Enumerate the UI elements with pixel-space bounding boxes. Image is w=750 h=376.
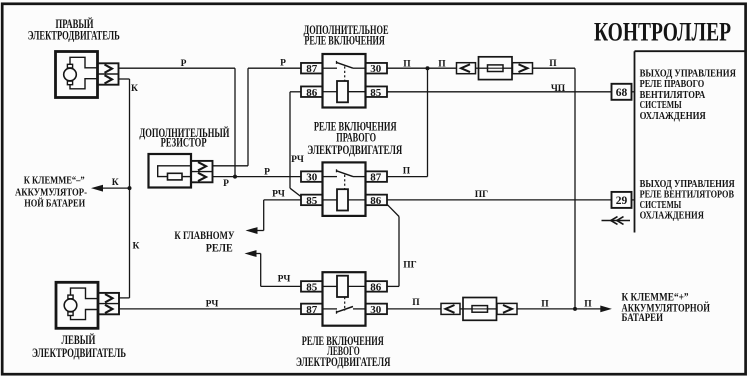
svg-text:КОНТРОЛЛЕР: КОНТРОЛЛЕР <box>594 17 731 46</box>
svg-text:РЧ: РЧ <box>291 155 304 165</box>
svg-text:85: 85 <box>306 195 318 207</box>
svg-text:ЭЛЕКТРОДВИГАТЕЛЯ: ЭЛЕКТРОДВИГАТЕЛЯ <box>307 143 402 157</box>
svg-text:РЕЗИСТОР: РЕЗИСТОР <box>161 135 207 149</box>
svg-text:П: П <box>412 298 420 308</box>
svg-text:РЧ: РЧ <box>278 274 291 284</box>
svg-text:П: П <box>584 299 592 309</box>
svg-text:ЧП: ЧП <box>551 84 566 94</box>
svg-text:29: 29 <box>616 195 628 207</box>
svg-text:87: 87 <box>306 63 318 75</box>
svg-text:Р: Р <box>280 59 286 69</box>
svg-text:Р: Р <box>181 59 187 69</box>
svg-text:85: 85 <box>370 87 382 99</box>
svg-text:68: 68 <box>616 87 628 99</box>
svg-text:П: П <box>403 167 411 177</box>
svg-text:К: К <box>131 84 138 94</box>
svg-text:РЧ: РЧ <box>206 299 219 309</box>
svg-text:П: П <box>549 59 557 69</box>
svg-text:87: 87 <box>370 172 382 184</box>
svg-text:ПГ: ПГ <box>403 261 416 271</box>
svg-text:30: 30 <box>306 172 318 184</box>
svg-text:ЛЕВЫЙ: ЛЕВЫЙ <box>61 333 95 347</box>
svg-text:БАТАРЕИ: БАТАРЕИ <box>622 312 664 324</box>
svg-text:К ГЛАВНОМУ: К ГЛАВНОМУ <box>174 230 234 242</box>
svg-text:ПГ: ПГ <box>475 190 488 200</box>
svg-text:Р: Р <box>223 179 229 189</box>
svg-text:РЕЛЕ: РЕЛЕ <box>206 242 233 254</box>
svg-text:30: 30 <box>370 304 382 316</box>
svg-text:РЧ: РЧ <box>272 190 285 200</box>
svg-text:30: 30 <box>370 63 382 75</box>
svg-text:86: 86 <box>370 195 382 207</box>
svg-text:К КЛЕММЕ“–”: К КЛЕММЕ“–” <box>24 175 85 187</box>
svg-text:П: П <box>541 299 549 309</box>
svg-text:П: П <box>403 60 411 70</box>
svg-text:К: К <box>112 178 119 188</box>
svg-text:86: 86 <box>370 281 382 293</box>
svg-text:ЭЛЕКТРОДВИГАТЕЛЬ: ЭЛЕКТРОДВИГАТЕЛЬ <box>28 28 120 42</box>
svg-text:ОХЛАЖДЕНИЯ: ОХЛАЖДЕНИЯ <box>640 110 706 122</box>
svg-text:НОЙ БАТАРЕИ: НОЙ БАТАРЕИ <box>24 197 85 209</box>
svg-text:П: П <box>438 60 446 70</box>
svg-text:ЭЛЕКТРОДВИГАТЕЛЯ: ЭЛЕКТРОДВИГАТЕЛЯ <box>296 355 390 369</box>
svg-text:К: К <box>133 242 140 252</box>
svg-text:ЭЛЕКТРОДВИГАТЕЛЬ: ЭЛЕКТРОДВИГАТЕЛЬ <box>32 346 126 360</box>
svg-text:85: 85 <box>306 281 318 293</box>
svg-text:87: 87 <box>306 304 318 316</box>
svg-text:ОХЛАЖДЕНИЯ: ОХЛАЖДЕНИЯ <box>640 209 704 221</box>
svg-text:86: 86 <box>306 87 318 99</box>
svg-text:РЕЛЕ ВКЛЮЧЕНИЯ: РЕЛЕ ВКЛЮЧЕНИЯ <box>304 33 385 47</box>
svg-text:Р: Р <box>264 168 270 178</box>
